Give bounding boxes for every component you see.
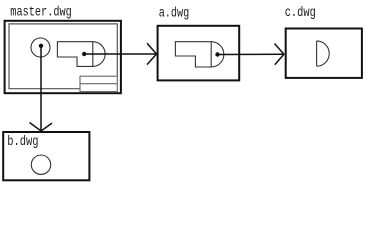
arrow master to a.dwg : open head	[147, 43, 157, 64]
arrow a.dwg to c.dwg : shaft	[218, 53, 284, 55]
circle in b.dwg	[31, 155, 50, 174]
semicircle end of L-shape in master	[93, 42, 105, 67]
L-shape part in master	[57, 42, 92, 67]
master.dwg inner frame	[9, 24, 117, 89]
arrow master to a.dwg : shaft	[84, 53, 156, 55]
c.dwg box	[286, 29, 362, 78]
D-shape arc in c.dwg	[317, 41, 330, 66]
svg-text:c.dwg: c.dwg	[285, 5, 316, 21]
D-shape flat side in c.dwg	[316, 41, 318, 66]
svg-text:a.dwg: a.dwg	[159, 5, 190, 21]
L-shape part in a.dwg	[175, 42, 211, 67]
arrow a.dwg to c.dwg : open head	[275, 44, 284, 65]
svg-text:master.dwg: master.dwg	[10, 5, 71, 21]
svg-text:b.dwg: b.dwg	[7, 134, 38, 150]
xref dot in master L-shape	[82, 52, 86, 56]
title block middle line	[80, 83, 117, 85]
xref dot in master circle	[39, 44, 43, 48]
a.dwg box	[158, 26, 240, 81]
xref dot in a.dwg	[215, 52, 219, 56]
arrow master to b.dwg : open head	[30, 123, 53, 132]
master.dwg outer frame	[5, 21, 121, 93]
circle in master	[31, 38, 50, 57]
title block in master	[80, 76, 117, 91]
b.dwg box	[3, 132, 89, 180]
arrow master to b.dwg : shaft	[40, 46, 42, 131]
semicircle end of L-shape in a.dwg	[211, 42, 224, 67]
